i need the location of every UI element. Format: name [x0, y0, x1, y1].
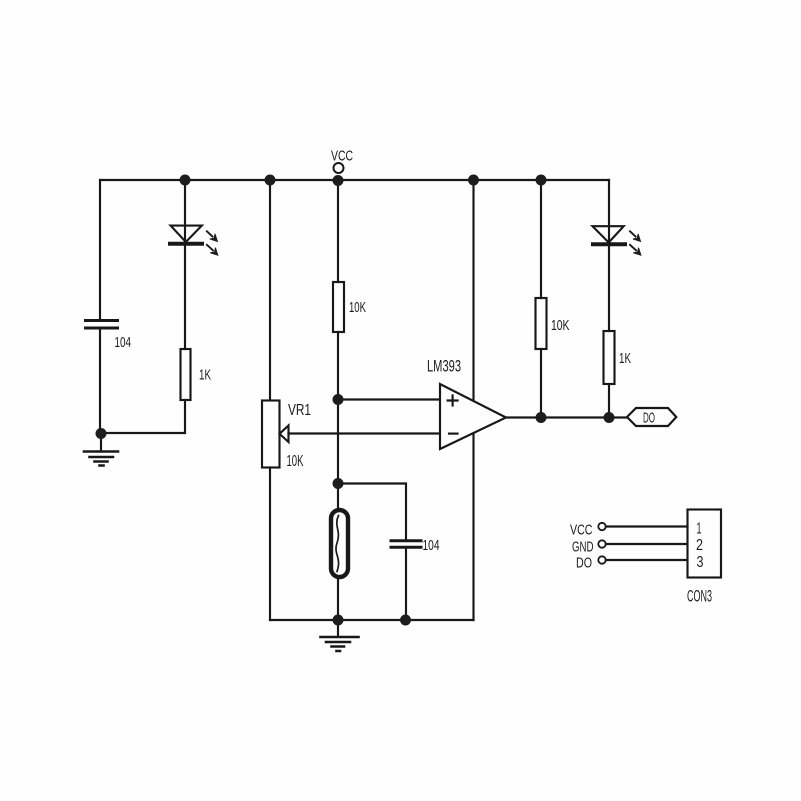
svg-text:VR1: VR1: [288, 402, 311, 419]
junction dot output-R4: [604, 412, 615, 423]
junction dot bottom-C2: [400, 615, 411, 626]
LED D1 triangle: [171, 226, 202, 242]
svg-text:LM393: LM393: [427, 357, 461, 376]
svg-text:VCC: VCC: [331, 148, 353, 165]
wire R1 bottom to ground node: [101, 400, 185, 433]
LED D2 cathode bar: [593, 242, 625, 246]
wire pin3 DO: [606, 559, 688, 561]
svg-text:2: 2: [696, 537, 703, 554]
VCC terminal circle: [334, 163, 344, 173]
wire C2 to bottom rail: [405, 549, 407, 621]
svg-text:3: 3: [697, 554, 704, 571]
wire LED D2 cathode to R4: [608, 246, 610, 331]
wire pot branch upper: [269, 180, 271, 400]
wire LED D1 anode: [184, 180, 186, 244]
svg-text:1K: 1K: [619, 350, 631, 367]
wire left branch lower: [99, 328, 101, 433]
LED D2 triangle: [593, 226, 624, 242]
wire right 10K branch top: [540, 180, 542, 298]
junction dot bottom-sensor: [333, 615, 344, 626]
junction dot rail-comparator: [468, 175, 479, 186]
LED D1 arrow 2: [207, 245, 218, 255]
wire sensor to bottom rail: [337, 577, 339, 620]
connector pin circle GND: [598, 540, 605, 547]
LED D2 arrow 2: [630, 245, 641, 255]
resistor R1 1K body: [181, 349, 191, 400]
wire noninverting node down to sensor node: [337, 400, 339, 484]
capacitor C2 104 top plate: [391, 539, 421, 542]
wire output: [506, 416, 627, 418]
wire pin1 VCC: [606, 525, 688, 527]
connector pin circle VCC: [598, 523, 605, 530]
connector pin circle DO: [598, 556, 605, 563]
wire pin2 GND: [606, 543, 688, 545]
junction dot rail-R3: [536, 175, 547, 186]
svg-text:GND: GND: [572, 539, 594, 556]
wire comparator supply line: [472, 180, 474, 620]
op-amp U1 LM393 triangle: [440, 384, 506, 449]
sensor squiggle: [336, 516, 339, 572]
op-amp plus symbol: [448, 396, 458, 406]
LED D1 cathode bar: [170, 242, 202, 246]
ground middle bars: [321, 637, 359, 651]
resistor R4 1K body: [604, 331, 615, 384]
svg-text:10K: 10K: [551, 317, 570, 334]
svg-text:10K: 10K: [287, 453, 304, 470]
junction dot ground-left: [96, 428, 107, 439]
ground middle stub: [337, 620, 339, 637]
potentiometer VR1 wiper arrow: [280, 426, 289, 443]
svg-text:10K: 10K: [349, 299, 366, 316]
wire right LED branch descent: [608, 180, 610, 244]
wire top VCC rail: [100, 179, 609, 181]
resistor R3 10K body: [536, 298, 547, 349]
svg-text:104: 104: [423, 537, 440, 554]
junction dot rail-LED1: [180, 175, 191, 186]
wire R2 to noninverting node: [337, 332, 339, 400]
svg-text:VCC: VCC: [570, 522, 593, 539]
svg-text:104: 104: [115, 334, 132, 351]
capacitor C2 104 bottom plate: [391, 546, 421, 549]
potentiometer VR1 body: [262, 401, 280, 468]
wire left branch upper: [99, 180, 101, 320]
svg-text:1K: 1K: [199, 367, 211, 384]
wire sensor node to capacitor C2: [338, 484, 406, 541]
junction dot rail-pot: [265, 175, 276, 186]
ground left bars: [84, 452, 118, 466]
junction dot rail-VCC: [333, 175, 344, 186]
LED D1 arrow 1: [207, 231, 218, 241]
op-amp minus symbol: [449, 433, 458, 435]
LED D2 arrow 1: [630, 231, 641, 241]
junction dot sensor node: [333, 478, 344, 489]
wire bottom ground rail: [270, 619, 474, 621]
svg-text:1: 1: [697, 521, 702, 538]
svg-text:DO: DO: [576, 555, 592, 572]
wire noninverting input: [338, 398, 440, 400]
wire R3 to output: [540, 349, 542, 418]
svg-text:CON3: CON3: [687, 588, 712, 606]
resistor R2 10K body: [333, 282, 344, 332]
capacitor C1 104 top plate: [86, 319, 118, 322]
junction dot noninverting node: [333, 394, 344, 405]
capacitor C1 104 bottom plate: [86, 327, 118, 330]
sensor capsule body: [331, 510, 348, 577]
wire middle branch top: [337, 180, 339, 282]
ground left stub: [100, 433, 102, 451]
wire wiper to inverting input: [289, 432, 441, 434]
net tag DO hexagon: [627, 408, 676, 426]
wire LED D1 cathode to R1: [184, 246, 186, 349]
junction dot output-R3: [536, 412, 547, 423]
connector CON3 box: [688, 510, 722, 578]
wire sensor node to capsule: [337, 484, 339, 511]
svg-text:DO: DO: [643, 410, 655, 427]
wire pot branch lower: [269, 468, 271, 621]
wire R4 to output: [608, 384, 610, 418]
